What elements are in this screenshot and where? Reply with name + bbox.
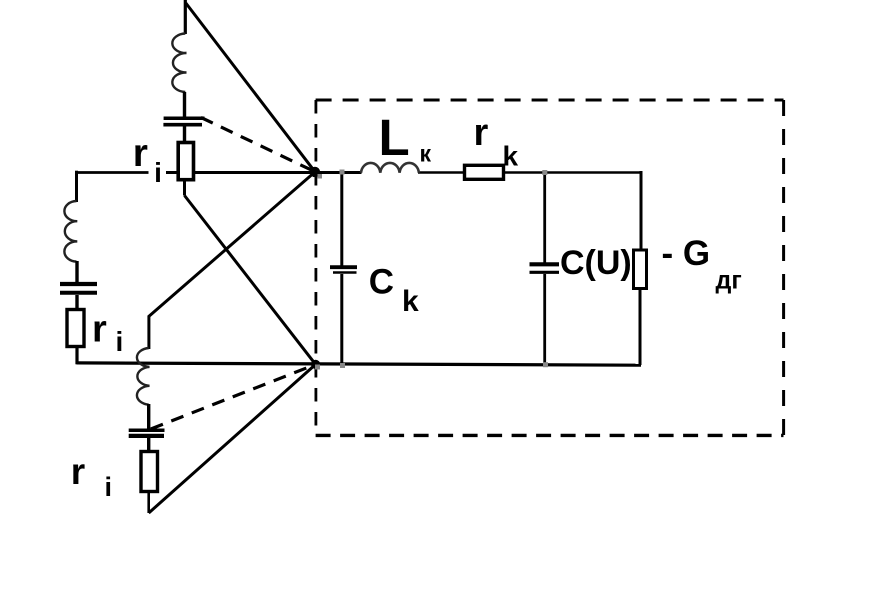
node B: [311, 360, 320, 369]
capacitor branch3 top plate: [129, 429, 165, 433]
svg-text:дг: дг: [716, 267, 742, 295]
inductor branch1 coil: [172, 34, 186, 93]
resistor R1 (r_i): [178, 143, 193, 180]
svg-text:L: L: [379, 109, 410, 166]
wire C_k branch bottom: [340, 274, 343, 365]
svg-text:C: C: [369, 263, 394, 302]
capacitor branch2 bottom plate: [60, 291, 97, 295]
resistor-style element -G: [634, 250, 647, 289]
svg-text:k: k: [402, 285, 419, 318]
wire branch2 coil-to-cap: [75, 261, 78, 282]
junction dot right of node A: [318, 174, 323, 179]
inductor L_k: [361, 163, 419, 173]
dashed wire branch1 cap to node A: [201, 118, 315, 172]
resistor R2 (r_i): [67, 310, 84, 347]
svg-text:C(U): C(U): [560, 244, 632, 282]
dashed boundary box right edge: [782, 100, 785, 436]
dashed boundary box bottom edge: [316, 434, 784, 437]
diagonal wire branch3 bottom to node B: [149, 364, 316, 513]
resistor R3 (r_i): [141, 452, 158, 492]
svg-text:i: i: [154, 157, 162, 188]
wire C_k branch top: [340, 172, 343, 266]
svg-text:i: i: [116, 326, 124, 357]
junction dot top of C_k: [340, 170, 345, 175]
capacitor branch1 top plate: [164, 117, 205, 121]
junction dot bottom of C_k: [340, 363, 345, 368]
dashed boundary box top edge: [316, 99, 784, 102]
wire C(U) branch bottom: [543, 274, 546, 365]
wire branch2 cap-to-resistor: [75, 295, 78, 311]
svg-text:к: к: [420, 141, 432, 167]
svg-text:- G: - G: [662, 234, 711, 273]
diagonal wire branch1 bottom to node B: [185, 196, 316, 365]
junction dot top of C(U): [542, 170, 547, 175]
wire -G branch bottom: [639, 288, 642, 365]
wire branch3 bottom lead: [147, 492, 150, 514]
wire branch1 cap-to-resistor: [183, 127, 186, 144]
resistor r_k: [465, 165, 504, 179]
inductor branch2 coil: [64, 201, 77, 262]
dashed boundary box left edge: [314, 100, 317, 435]
wire C(U) branch top: [543, 172, 546, 263]
wire branch3 top lead: [147, 316, 150, 350]
wire branch2 bottom lead: [75, 347, 78, 365]
wire branch1 coil-to-cap: [183, 92, 186, 117]
capacitor branch3 bottom plate: [129, 434, 164, 438]
junction dot node B: [315, 365, 320, 370]
wire branch3 coil-to-cap: [147, 404, 150, 430]
svg-text:k: k: [503, 141, 519, 172]
capacitor C_k bottom plate: [333, 271, 357, 274]
diagonal wire branch1 top to node A: [186, 3, 315, 172]
wire -G branch top: [640, 171, 643, 250]
svg-text:i: i: [105, 472, 113, 502]
svg-text:r: r: [133, 132, 148, 175]
wire branch2 top corner: [75, 171, 78, 202]
inductor branch3 coil: [137, 348, 150, 405]
junction dot bottom of C(U): [543, 362, 548, 367]
capacitor C_k top plate: [330, 265, 357, 269]
dashed wire branch3 cap to node B: [151, 364, 316, 429]
svg-text:r: r: [71, 451, 85, 492]
capacitor branch1 bottom plate: [163, 123, 202, 127]
wire branch3 cap-to-resistor: [147, 437, 150, 452]
capacitor C(U) top plate: [530, 262, 560, 266]
wire branch1 top lead: [184, 0, 187, 34]
svg-text:r: r: [474, 112, 489, 154]
svg-text:r: r: [92, 309, 107, 351]
capacitor C(U) bottom plate: [530, 271, 560, 274]
wire top bus middle segment to node A: [166, 171, 362, 174]
node A: [310, 167, 320, 177]
wire top bus right segment to -G corner: [418, 171, 641, 174]
wire branch1 bottom lead: [183, 181, 186, 196]
wire bottom bus y=364.5: [77, 363, 642, 365]
wire top bus left segment: [76, 171, 148, 174]
capacitor branch2 top plate: [60, 282, 97, 286]
diagonal wire branch3 top to node A: [149, 172, 315, 317]
